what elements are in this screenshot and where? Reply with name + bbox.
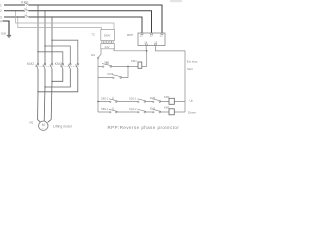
svg-text:TC: TC [91, 32, 95, 36]
svg-text:1: 1 [0, 3, 2, 7]
svg-text:15: 15 [154, 41, 157, 45]
svg-text:KM2: KM2 [164, 95, 170, 99]
svg-text:2: 2 [0, 9, 2, 13]
svg-text:~: ~ [42, 127, 44, 131]
svg-text:KM1: KM1 [131, 59, 137, 63]
svg-text:RPP:Reverse phase protector: RPP:Reverse phase protector [108, 125, 180, 130]
svg-text:KM1: KM1 [108, 72, 114, 76]
svg-text:KM2: KM2 [27, 62, 34, 66]
svg-text:Em.stop: Em.stop [187, 59, 198, 63]
svg-text:380V: 380V [104, 34, 111, 38]
svg-text:KM1: KM1 [21, 1, 29, 5]
svg-text:KM2: KM2 [150, 107, 156, 111]
svg-text:RPP: RPP [127, 33, 133, 37]
svg-text:ES: ES [91, 53, 95, 57]
svg-text:Start: Start [187, 67, 193, 71]
svg-text:Down: Down [188, 111, 196, 115]
svg-text:KM3: KM3 [164, 106, 170, 110]
svg-text:4: 4 [0, 20, 2, 24]
svg-text:KM3: KM3 [150, 96, 156, 100]
svg-text:GND: GND [1, 33, 7, 36]
svg-text:SQ1-2: SQ1-2 [129, 107, 137, 111]
svg-text:SQ1-1: SQ1-1 [129, 97, 137, 101]
svg-text:Lifting motor: Lifting motor [53, 124, 73, 128]
svg-text:SB3-1: SB3-1 [101, 107, 109, 111]
svg-text:24V: 24V [105, 45, 110, 49]
svg-text:SB2-1: SB2-1 [101, 97, 109, 101]
svg-text:KM3: KM3 [55, 62, 62, 66]
svg-text:Up: Up [190, 98, 194, 102]
svg-text:M1: M1 [30, 121, 34, 125]
svg-text:SB1: SB1 [104, 60, 110, 64]
